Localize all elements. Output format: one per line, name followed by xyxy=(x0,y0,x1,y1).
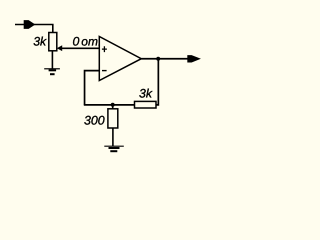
svg-text:300: 300 xyxy=(84,113,105,127)
wire R2 to feedback corner xyxy=(156,59,158,105)
ground GND1 xyxy=(44,69,60,74)
op-amp minus input mark xyxy=(102,70,107,72)
wire op-amp output xyxy=(141,58,187,60)
svg-text:0: 0 xyxy=(73,34,80,48)
op-amp U1 xyxy=(99,37,141,81)
junction node output xyxy=(156,57,160,61)
wire R3 to ground xyxy=(112,128,114,146)
junction node inverting xyxy=(111,103,115,107)
potentiometer R1 wiper arrow xyxy=(57,45,62,51)
wire bottom to R2 xyxy=(84,104,135,106)
wire junction to R3 xyxy=(112,105,114,109)
wire wiper to op-amp non-inverting input xyxy=(61,47,99,49)
wire potentiometer to ground xyxy=(51,51,53,69)
wire input to potentiometer top xyxy=(15,25,53,34)
ground GND2 xyxy=(104,146,124,151)
resistor R2 body 3k feedback xyxy=(135,101,157,108)
svg-text:3k: 3k xyxy=(33,35,47,49)
svg-text:3k: 3k xyxy=(139,86,153,100)
svg-text:om.: om. xyxy=(81,34,101,48)
output terminal arrow xyxy=(187,55,201,62)
potentiometer R1 body xyxy=(49,33,57,51)
resistor R3 body 300 xyxy=(108,109,118,128)
op-amp plus input mark xyxy=(102,46,107,52)
input terminal arrow xyxy=(24,20,36,29)
wire inverting input loop xyxy=(85,71,100,105)
